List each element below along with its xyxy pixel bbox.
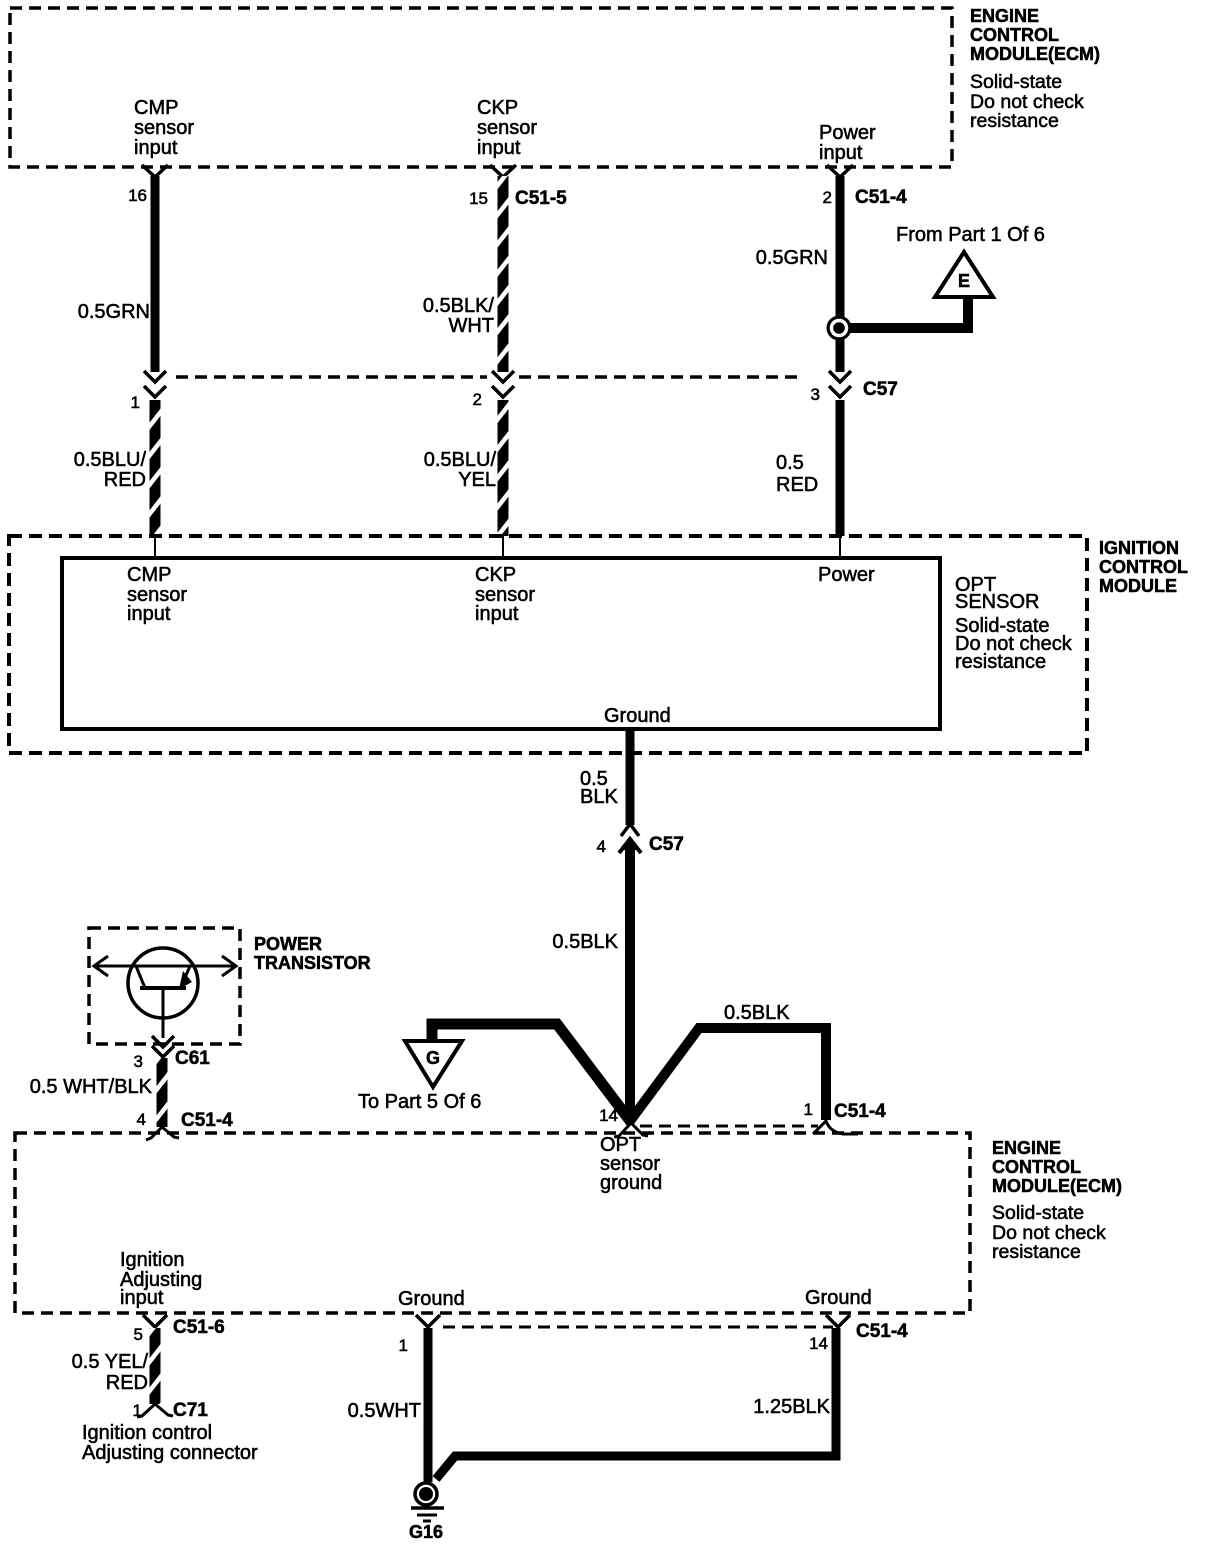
svg-text:MODULE: MODULE — [1099, 576, 1177, 596]
svg-text:G: G — [426, 1048, 440, 1068]
svg-text:Solid-state: Solid-state — [992, 1202, 1084, 1224]
svg-text:CMP: CMP — [134, 97, 178, 119]
svg-text:RED: RED — [776, 474, 818, 496]
lead into ICM — [154, 536, 156, 558]
svg-text:Power: Power — [819, 122, 876, 144]
connector C57 pin 1 chevrons — [144, 371, 166, 382]
svg-text:C51-4: C51-4 — [856, 1321, 908, 1342]
svg-text:1: 1 — [133, 1401, 142, 1420]
svg-text:C51-4: C51-4 — [834, 1101, 886, 1122]
wire 1.25BLK and bottom run — [436, 1328, 836, 1479]
wire 0.5WHT/BLK hatched — [157, 1058, 168, 1127]
svg-text:14: 14 — [599, 1106, 618, 1125]
svg-text:1: 1 — [131, 393, 140, 412]
connector C71 flare — [137, 1404, 173, 1417]
svg-text:TRANSISTOR: TRANSISTOR — [254, 953, 371, 973]
svg-text:0.5BLU/: 0.5BLU/ — [74, 449, 147, 471]
svg-text:input: input — [134, 137, 178, 159]
svg-text:4: 4 — [597, 837, 606, 856]
wire 0.5WHT — [424, 1328, 433, 1482]
connector C61 arrow — [152, 1036, 174, 1047]
lead into ICM — [839, 536, 841, 558]
svg-text:CKP: CKP — [477, 97, 518, 119]
connector pin 4 flare at ECM — [146, 1127, 179, 1140]
connector C61 flare — [152, 1046, 174, 1057]
lead into ICM — [502, 536, 504, 558]
wire 0.5YEL/RED hatched — [150, 1328, 161, 1404]
connector flare pin 16 — [142, 165, 168, 177]
connector pin 1 flare — [813, 1121, 858, 1134]
svg-text:input: input — [477, 137, 521, 159]
transistor emitter lead — [162, 988, 165, 1038]
wire 0.5RED — [836, 400, 845, 536]
svg-text:C51-5: C51-5 — [515, 188, 567, 209]
svg-text:15: 15 — [469, 189, 488, 208]
svg-text:To Part 5 Of 6: To Part 5 Of 6 — [358, 1091, 481, 1113]
ECM top module dashed box — [10, 8, 952, 167]
svg-text:sensor: sensor — [477, 117, 537, 139]
svg-text:CMP: CMP — [127, 564, 171, 586]
wire 0.5BLU/YEL hatched — [498, 400, 509, 536]
svg-text:CONTROL: CONTROL — [992, 1157, 1081, 1177]
svg-text:Ignition: Ignition — [120, 1249, 185, 1271]
svg-text:0.5GRN: 0.5GRN — [78, 301, 150, 323]
svg-text:Power: Power — [818, 564, 875, 586]
connector pin 5 flare — [143, 1315, 167, 1327]
svg-text:1: 1 — [804, 1100, 813, 1119]
svg-text:From Part 1 Of 6: From Part 1 Of 6 — [896, 224, 1045, 246]
connector dashes below ECM edge — [443, 1326, 833, 1329]
wire from G to junction — [432, 1024, 631, 1122]
connector C57 pin 4 flare — [621, 824, 639, 836]
wire 0.5BLU/RED hatched — [150, 400, 161, 536]
wire 0.5BLK right branch — [630, 1028, 826, 1121]
svg-text:resistance: resistance — [955, 651, 1046, 673]
svg-text:0.5BLK: 0.5BLK — [552, 931, 618, 953]
svg-text:1: 1 — [399, 1336, 408, 1355]
svg-text:Ground: Ground — [604, 705, 671, 727]
svg-text:IGNITION: IGNITION — [1099, 538, 1179, 558]
svg-text:Ignition control: Ignition control — [82, 1422, 212, 1444]
svg-text:CKP: CKP — [475, 564, 516, 586]
svg-text:ENGINE: ENGINE — [970, 6, 1039, 26]
triangle E — [935, 252, 993, 297]
transistor lead line with arrows — [96, 965, 234, 968]
connector C57 pin 2 chevrons — [492, 371, 514, 382]
svg-text:input: input — [127, 603, 171, 625]
svg-text:2: 2 — [823, 188, 832, 207]
svg-text:input: input — [120, 1287, 164, 1309]
svg-text:1.25BLK: 1.25BLK — [753, 1396, 830, 1418]
svg-text:resistance: resistance — [992, 1241, 1081, 1263]
junction — [827, 316, 852, 341]
svg-text:C57: C57 — [649, 834, 684, 855]
svg-text:3: 3 — [811, 385, 820, 404]
connector flare ground 14 — [826, 1315, 850, 1327]
svg-text:14: 14 — [809, 1334, 828, 1353]
svg-text:CONTROL: CONTROL — [970, 25, 1059, 45]
svg-text:Adjusting connector: Adjusting connector — [82, 1442, 258, 1464]
ECM bottom module dashed box — [15, 1133, 970, 1313]
wire to triangle E — [843, 295, 968, 328]
svg-text:YEL: YEL — [458, 469, 496, 491]
svg-text:2: 2 — [473, 390, 482, 409]
svg-text:0.5 WHT/BLK: 0.5 WHT/BLK — [30, 1076, 153, 1098]
svg-text:0.5: 0.5 — [776, 452, 804, 474]
ICM ground wire 0.5BLK — [626, 729, 635, 825]
transistor Q circle — [128, 948, 198, 1018]
svg-text:WHT: WHT — [448, 315, 494, 337]
svg-text:C51-4: C51-4 — [181, 1110, 233, 1131]
transistor emitter diag with arrow — [181, 966, 190, 987]
svg-text:ENGINE: ENGINE — [992, 1138, 1061, 1158]
svg-text:input: input — [819, 142, 863, 164]
transistor base bar — [140, 986, 186, 990]
svg-text:MODULE(ECM): MODULE(ECM) — [992, 1176, 1122, 1196]
svg-text:16: 16 — [128, 186, 147, 205]
svg-text:Ground: Ground — [398, 1288, 465, 1310]
connector C57 pin 4 arrow — [619, 839, 641, 853]
svg-text:SENSOR: SENSOR — [955, 591, 1039, 613]
svg-text:0.5WHT: 0.5WHT — [348, 1400, 421, 1422]
svg-text:sensor: sensor — [134, 117, 194, 139]
svg-text:4: 4 — [137, 1110, 146, 1129]
svg-text:0.5 YEL/: 0.5 YEL/ — [72, 1351, 149, 1373]
svg-text:CONTROL: CONTROL — [1099, 557, 1188, 577]
triangle G — [405, 1041, 462, 1087]
connector flare power — [827, 165, 853, 177]
connector pin 14 flare — [614, 1123, 648, 1137]
ICM inner solid box — [62, 558, 940, 729]
connector flare pin 15 — [490, 165, 516, 177]
power transistor dashed box — [89, 928, 240, 1044]
svg-text:BLK: BLK — [580, 786, 618, 808]
svg-text:C57: C57 — [863, 379, 898, 400]
connector row C57 dashed line — [176, 375, 487, 379]
svg-text:0.5BLU/: 0.5BLU/ — [424, 449, 497, 471]
svg-text:input: input — [475, 603, 519, 625]
svg-text:5: 5 — [134, 1325, 143, 1344]
svg-text:C61: C61 — [175, 1048, 210, 1069]
wire 0.5BLK to junction — [625, 847, 635, 1120]
svg-text:RED: RED — [106, 1372, 148, 1394]
svg-text:3: 3 — [134, 1052, 143, 1071]
connector flare ground 1 — [416, 1315, 440, 1327]
svg-text:MODULE(ECM): MODULE(ECM) — [970, 44, 1100, 64]
svg-text:POWER: POWER — [254, 934, 322, 954]
wire 0.5GRN CMP — [151, 176, 160, 372]
svg-text:resistance: resistance — [970, 110, 1059, 132]
svg-text:C51-4: C51-4 — [855, 187, 907, 208]
svg-text:0.5BLK/: 0.5BLK/ — [423, 295, 495, 317]
connector dashes above ECM edge — [640, 1125, 818, 1128]
svg-text:0.5GRN: 0.5GRN — [756, 247, 828, 269]
transistor collector diag — [136, 966, 145, 988]
svg-text:E: E — [958, 271, 970, 291]
svg-text:G16: G16 — [409, 1522, 443, 1542]
ignition control module dashed box — [9, 536, 1087, 753]
svg-text:ground: ground — [600, 1172, 662, 1194]
svg-text:Ground: Ground — [805, 1287, 872, 1309]
ground G16 symbol — [415, 1483, 437, 1505]
svg-text:Solid-state: Solid-state — [970, 71, 1062, 93]
svg-text:RED: RED — [104, 469, 146, 491]
svg-text:0.5BLK: 0.5BLK — [724, 1002, 790, 1024]
connector C57 pin 3 chevrons — [829, 371, 851, 382]
wire 0.5GRN power — [836, 176, 845, 372]
svg-text:C71: C71 — [173, 1400, 208, 1421]
wire 0.5BLK/WHT hatched — [498, 176, 509, 372]
svg-text:C51-6: C51-6 — [173, 1317, 225, 1338]
